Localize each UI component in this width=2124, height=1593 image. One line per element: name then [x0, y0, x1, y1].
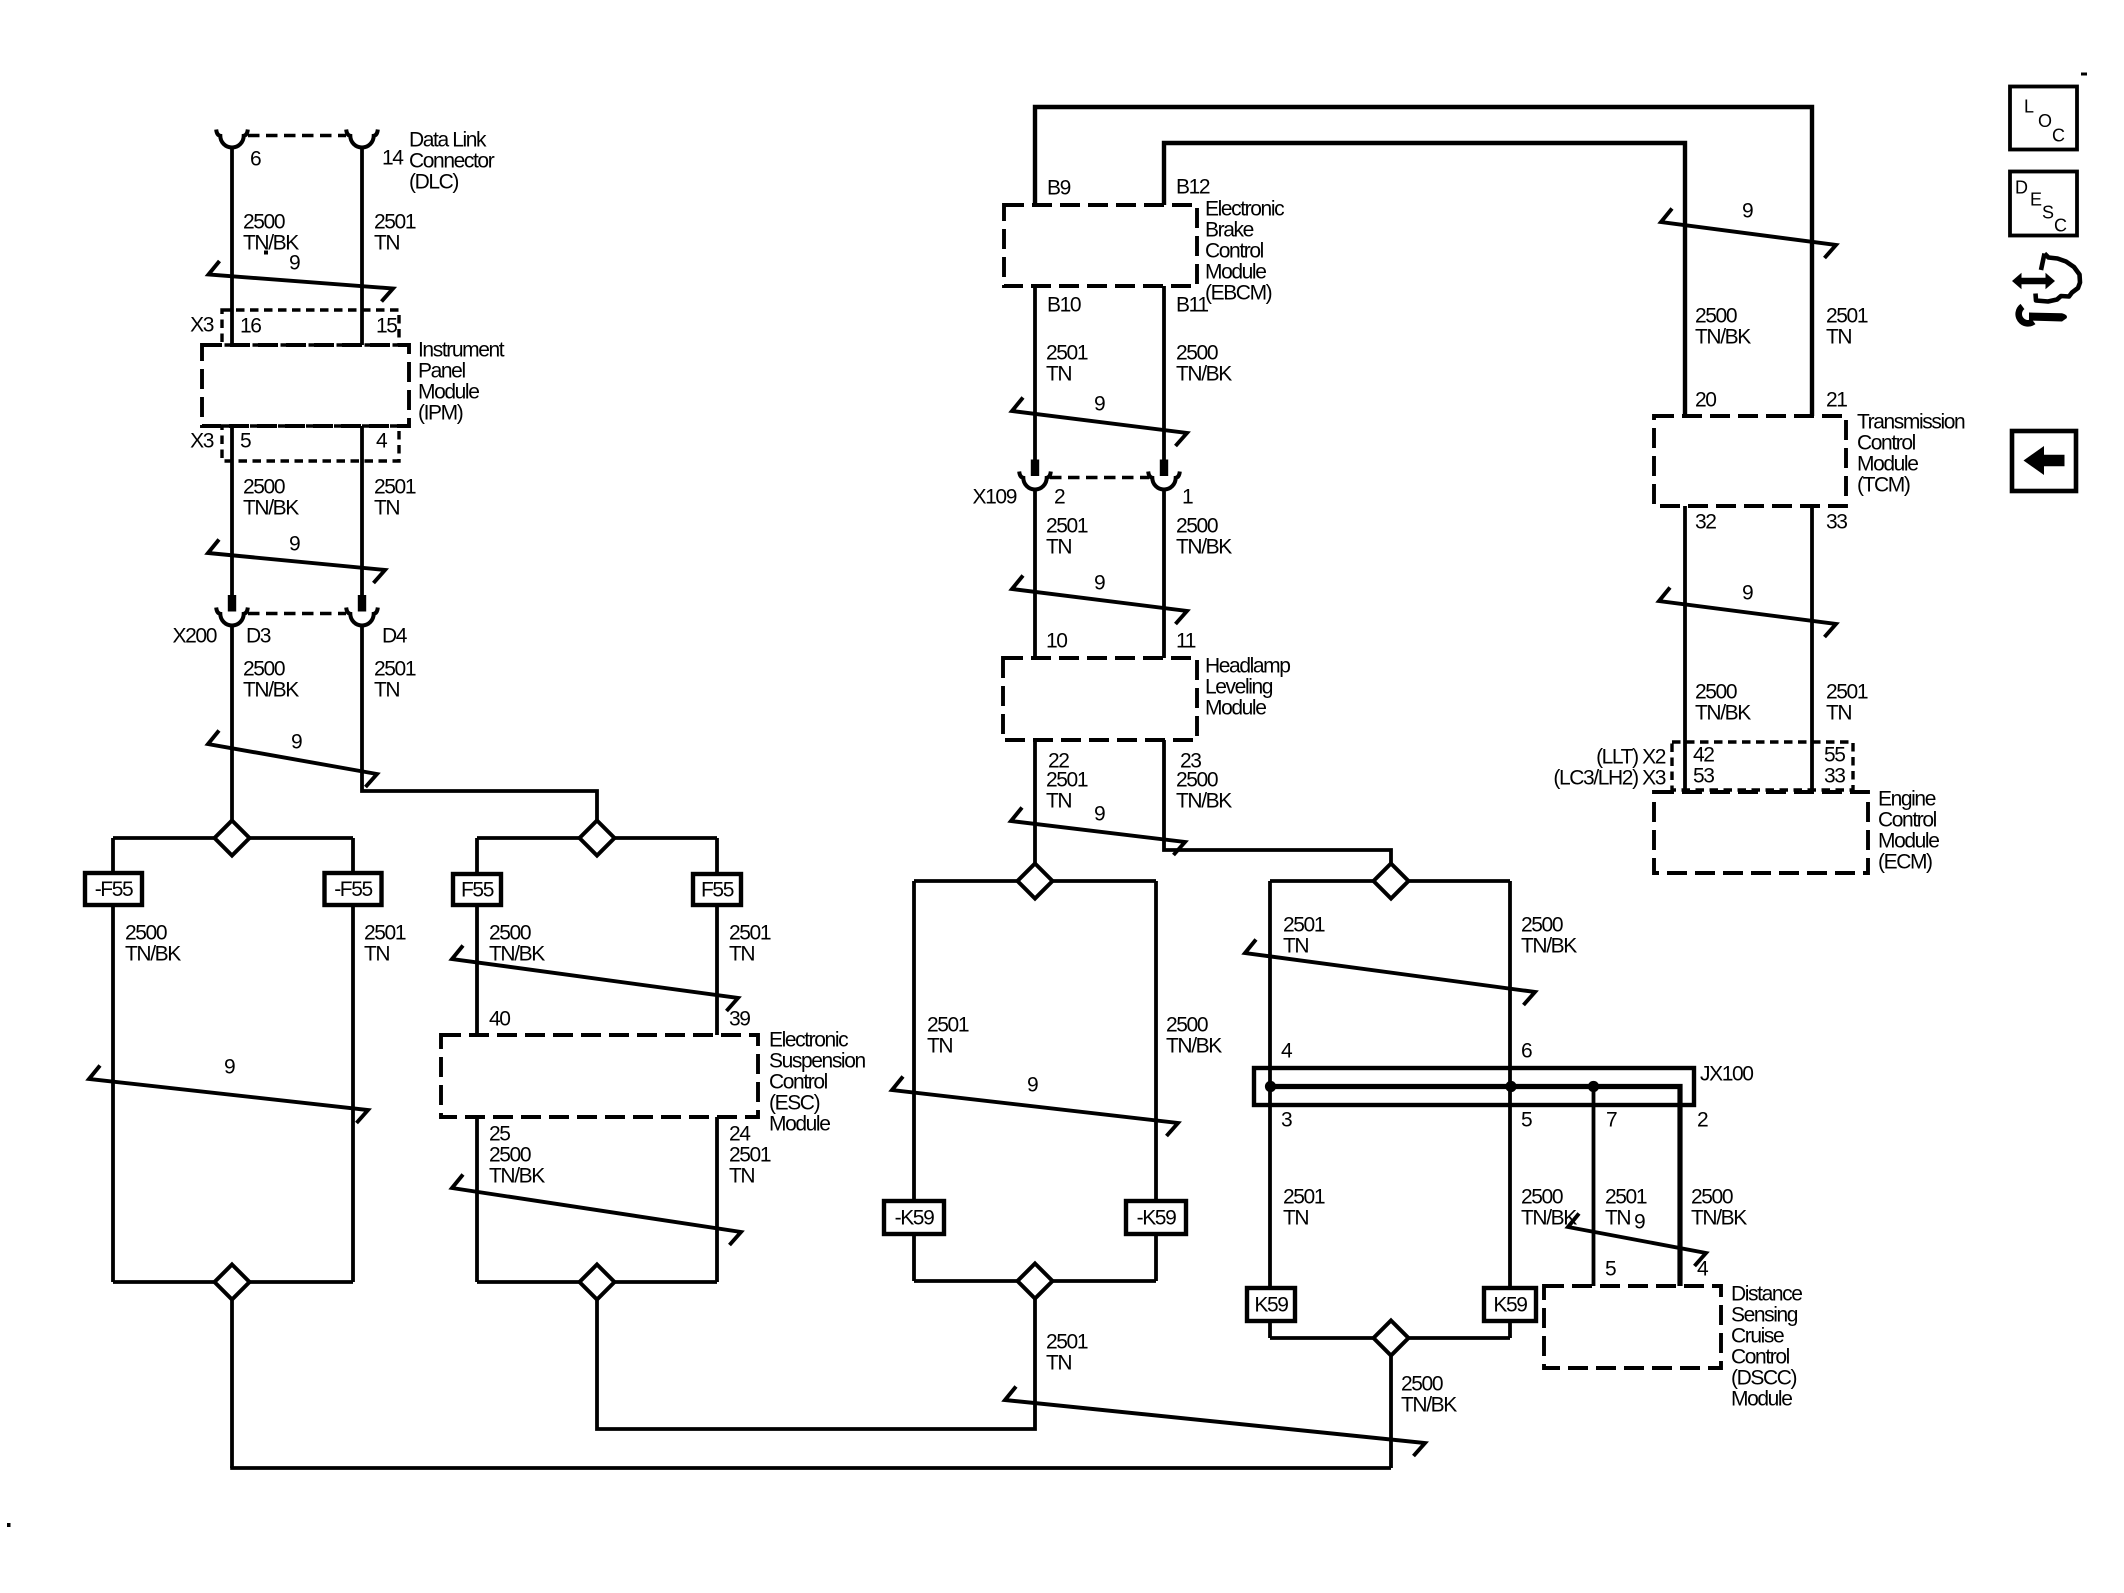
- wire label 2501 TN (center box): [927, 1014, 969, 1058]
- svg-text:39: 39: [729, 1008, 750, 1031]
- svg-text:-F55: -F55: [95, 878, 133, 901]
- svg-text:2501: 2501: [374, 476, 416, 499]
- svg-text:2500: 2500: [1166, 1014, 1208, 1037]
- svg-text:Module: Module: [1731, 1388, 1792, 1411]
- HLM pin 23 label: [1180, 750, 1201, 773]
- wire 2501 TN IPM to X200: [360, 426, 364, 596]
- wire label 2500 TN/BK (below ESC): [489, 1144, 545, 1188]
- splice (ESC bottom): [477, 1265, 717, 1300]
- TCM pin 21 label: [1826, 389, 1847, 412]
- svg-text:(ESC): (ESC): [769, 1092, 820, 1115]
- svg-text:TN/BK: TN/BK: [1176, 790, 1232, 813]
- HLM pin 11 label: [1176, 630, 1196, 653]
- icon wrench: [2019, 307, 2067, 324]
- svg-text:F55: F55: [461, 879, 494, 902]
- svg-text:Control: Control: [1731, 1346, 1790, 1369]
- twisted pair 9 label (EBCM): [1094, 393, 1105, 416]
- twisted pair 9 label (center box): [1027, 1074, 1038, 1097]
- svg-text:9: 9: [291, 731, 302, 754]
- svg-text:9: 9: [1634, 1211, 1645, 1234]
- svg-text:X200: X200: [173, 625, 217, 648]
- svg-text:TN/BK: TN/BK: [1691, 1207, 1747, 1230]
- svg-text:TN/BK: TN/BK: [489, 943, 545, 966]
- stray mark bottom left: [7, 1523, 11, 1527]
- svg-text:5: 5: [1605, 1258, 1616, 1281]
- svg-text:Transmission: Transmission: [1857, 411, 1965, 434]
- svg-text:TN/BK: TN/BK: [125, 943, 181, 966]
- icon LOC button: [2010, 87, 2077, 150]
- twisted pair 9 label: [289, 252, 300, 275]
- X200 pin D4 label: [382, 625, 408, 648]
- svg-text:2500: 2500: [1176, 515, 1218, 538]
- svg-text:7: 7: [1606, 1109, 1617, 1132]
- svg-text:4: 4: [1697, 1258, 1709, 1281]
- svg-text:F55: F55: [701, 879, 734, 902]
- HLM pin 10 label: [1046, 630, 1067, 653]
- svg-text:(LLT) X2: (LLT) X2: [1596, 746, 1666, 769]
- svg-text:2501: 2501: [1046, 515, 1088, 538]
- wire 2501 TN DLC to IPM: [360, 147, 364, 345]
- svg-text:2501: 2501: [374, 658, 416, 681]
- svg-text:Module: Module: [418, 381, 479, 404]
- svg-text:9: 9: [1094, 393, 1105, 416]
- wire label 2500 TN/BK (pin 2): [1691, 1186, 1747, 1230]
- svg-text:1: 1: [1182, 486, 1193, 509]
- svg-text:Brake: Brake: [1205, 219, 1254, 242]
- svg-text:(ECM): (ECM): [1878, 851, 1932, 874]
- svg-text:4: 4: [1281, 1040, 1293, 1063]
- svg-text:6: 6: [1521, 1040, 1532, 1063]
- svg-text:(DLC): (DLC): [409, 171, 458, 194]
- svg-text:S: S: [2042, 203, 2054, 223]
- relay K59 (right box right): [1484, 1288, 1536, 1321]
- splice (center bottom): [914, 1264, 1156, 1299]
- module IPM box: [202, 345, 409, 426]
- svg-text:B10: B10: [1047, 294, 1081, 317]
- wire label 2500 TN/BK (center box): [1166, 1014, 1222, 1058]
- svg-text:TN/BK: TN/BK: [1695, 702, 1751, 725]
- svg-text:6: 6: [250, 148, 261, 171]
- splice (left 2500 branch): [113, 821, 353, 856]
- relay -K59 (center left): [884, 1201, 944, 1234]
- svg-text:TN/BK: TN/BK: [1521, 935, 1577, 958]
- svg-text:2500: 2500: [1691, 1186, 1733, 1209]
- wire label 2500 TN/BK (below IPM): [243, 476, 299, 520]
- svg-text:2500: 2500: [1695, 681, 1737, 704]
- module label TCM: [1857, 411, 1965, 497]
- module label EBCM: [1205, 198, 1284, 305]
- relay K59 (right box left): [1247, 1288, 1295, 1321]
- svg-text:B12: B12: [1176, 176, 1210, 199]
- connector X3 top row pins 16 15: [222, 310, 399, 345]
- svg-text:14: 14: [382, 147, 404, 170]
- svg-text:2501: 2501: [1046, 769, 1088, 792]
- svg-text:Data Link: Data Link: [409, 129, 487, 152]
- twisted pair symbol 9 (X200-splice): [208, 731, 377, 788]
- svg-text:21: 21: [1826, 389, 1847, 412]
- svg-text:-F55: -F55: [334, 878, 372, 901]
- svg-text:TN: TN: [1826, 702, 1851, 725]
- svg-text:33: 33: [1824, 765, 1845, 788]
- junction block JX100: [1254, 1068, 1694, 1286]
- twisted pair symbol 9 (IPM-X200): [208, 540, 385, 584]
- svg-text:2500: 2500: [489, 922, 531, 945]
- EBCM pin B9 label: [1047, 177, 1071, 200]
- svg-text:25: 25: [489, 1123, 510, 1146]
- svg-text:TN: TN: [1283, 935, 1308, 958]
- wire 2501 TN TCM 33 to ECM: [1810, 506, 1814, 792]
- wire label 2500 TN/BK (HLM 23): [1176, 769, 1232, 813]
- ECM pin 42 label: [1693, 744, 1714, 767]
- twisted pair 9 label (HLM): [1094, 803, 1105, 826]
- svg-text:TN: TN: [729, 1165, 754, 1188]
- svg-text:2501: 2501: [1826, 305, 1868, 328]
- ESC pin 40 label: [489, 1008, 510, 1031]
- wire 2500 TN/BK right box right: [1508, 881, 1512, 1338]
- svg-text:C: C: [2054, 216, 2067, 236]
- wire label 2501 TN (TCM 21): [1826, 305, 1868, 349]
- wire right box bottom drop: [1389, 1356, 1393, 1469]
- svg-text:2501: 2501: [1283, 1186, 1325, 1209]
- wire 2500 TN/BK center right: [1154, 881, 1158, 1281]
- wire 2501 TN to ESC 39: [715, 838, 719, 1035]
- module ESC box: [441, 1035, 758, 1117]
- svg-text:B9: B9: [1047, 177, 1071, 200]
- svg-text:TN: TN: [1046, 363, 1071, 386]
- svg-text:K59: K59: [1493, 1294, 1527, 1317]
- svg-text:(IPM): (IPM): [418, 402, 463, 425]
- EBCM pin B12 label: [1176, 176, 1210, 199]
- svg-text:TN: TN: [927, 1035, 952, 1058]
- twisted pair symbol 9 (HLM): [1011, 808, 1185, 856]
- wire 2500 TN/BK left branch A: [111, 838, 115, 1282]
- svg-text:TN: TN: [1046, 536, 1071, 559]
- svg-text:TN: TN: [1046, 1352, 1071, 1375]
- wire label 2501 TN (below IPM): [374, 476, 416, 520]
- wire 2500 TN/BK to ESC 40: [475, 838, 479, 1035]
- svg-text:Module: Module: [1878, 830, 1939, 853]
- svg-text:9: 9: [224, 1056, 235, 1079]
- DLC pin 6 label: [250, 148, 261, 171]
- wire label 2501 TN (B10): [1046, 342, 1088, 386]
- ESC pin 25 label: [489, 1123, 510, 1146]
- svg-text:D3: D3: [246, 625, 271, 648]
- svg-text:Control: Control: [1857, 432, 1916, 455]
- svg-text:9: 9: [289, 252, 300, 275]
- svg-text:2501: 2501: [1046, 1331, 1088, 1354]
- wire 2501 TN ESC splice to center splice: [597, 1298, 1035, 1429]
- EBCM pin B10 label: [1047, 294, 1081, 317]
- module label ESC: [769, 1029, 865, 1136]
- module label ECM: [1878, 788, 1939, 874]
- icon swap curved arrow: [2036, 254, 2081, 302]
- TCM pin 32 label: [1695, 511, 1716, 534]
- ECM connector label (LC3/LH2) X3: [1553, 767, 1665, 790]
- svg-text:Electronic: Electronic: [769, 1029, 848, 1052]
- twisted pair symbol 9 (TCM-ECM): [1659, 588, 1836, 638]
- connector DLC (Data Link Connector) pins 6 and 14: [216, 130, 378, 148]
- twisted pair symbol 9 (X109-HLM): [1012, 576, 1187, 625]
- svg-text:TN: TN: [1283, 1207, 1308, 1230]
- JX100 pin 2 label: [1697, 1109, 1708, 1132]
- svg-text:Leveling: Leveling: [1205, 676, 1273, 699]
- svg-text:2500: 2500: [243, 211, 285, 234]
- svg-text:TN: TN: [729, 943, 754, 966]
- svg-text:24: 24: [729, 1123, 751, 1146]
- icon back arrow button: [2012, 431, 2076, 491]
- svg-text:42: 42: [1693, 744, 1714, 767]
- wire left box bottom drop: [230, 1300, 234, 1469]
- svg-text:TN/BK: TN/BK: [243, 679, 299, 702]
- twisted pair symbol (right box top): [1245, 940, 1535, 1006]
- wire 2500 TN/BK IPM to X200: [230, 426, 234, 596]
- svg-text:32: 32: [1695, 511, 1716, 534]
- wire label 2500 TN/BK (to ECM): [1695, 681, 1751, 725]
- HLM pin 22 label: [1048, 750, 1069, 773]
- connector label X109: [973, 486, 1017, 509]
- IPM pin 4 label: [376, 430, 388, 453]
- twisted pair symbol 9 (left box): [89, 1066, 368, 1124]
- svg-text:2500: 2500: [243, 476, 285, 499]
- wire label 2501 TN (ESC): [729, 922, 771, 966]
- svg-text:TN: TN: [374, 497, 399, 520]
- svg-text:Module: Module: [1857, 453, 1918, 476]
- wire label 2501 TN (right box): [1283, 914, 1325, 958]
- relay -K59 (center right): [1126, 1201, 1186, 1234]
- svg-text:2501: 2501: [729, 922, 771, 945]
- connector X3 bottom row pins 5 4: [222, 426, 399, 461]
- svg-text:(TCM): (TCM): [1857, 474, 1910, 497]
- svg-text:B11: B11: [1176, 294, 1208, 317]
- svg-text:2501: 2501: [1046, 342, 1088, 365]
- wire bottom bus run: [230, 1466, 1391, 1470]
- svg-text:Control: Control: [1878, 809, 1937, 832]
- svg-text:Panel: Panel: [418, 360, 465, 383]
- svg-text:2500: 2500: [489, 1144, 531, 1167]
- icon DESC button: [2010, 172, 2077, 236]
- svg-text:2501: 2501: [1283, 914, 1325, 937]
- ESC pin 39 label: [729, 1008, 750, 1031]
- wire label 2500 TN/BK (left box): [125, 922, 181, 966]
- wire label 2500 TN/BK (B11): [1176, 342, 1232, 386]
- twisted pair symbol 9 (center box): [892, 1077, 1178, 1137]
- svg-text:2501: 2501: [374, 211, 416, 234]
- svg-text:2501: 2501: [364, 922, 406, 945]
- twisted pair 9 label (TCM top): [1742, 200, 1753, 223]
- twisted pair symbol (DSCC pair): [1568, 1214, 1706, 1267]
- splice (ESC top): [477, 821, 717, 856]
- svg-text:Distance: Distance: [1731, 1283, 1802, 1306]
- svg-text:E: E: [2030, 190, 2042, 210]
- twisted pair symbol (ESC top): [452, 946, 738, 1012]
- twisted pair symbol 9 (DLC-IPM): [209, 261, 394, 302]
- svg-text:10: 10: [1046, 630, 1067, 653]
- connector label X200: [173, 625, 217, 648]
- DLC pin 14 label: [382, 147, 404, 170]
- wire label 2500 TN/BK: [243, 211, 299, 255]
- svg-text:TN/BK: TN/BK: [489, 1165, 545, 1188]
- wire 2501 TN HLM 22 to center splice: [1033, 740, 1037, 864]
- fuse -F55 (left B): [325, 873, 382, 905]
- stray mark top right: [2081, 73, 2087, 76]
- wire ESC 25 down: [475, 1117, 479, 1282]
- X109 pin 1 label: [1182, 486, 1193, 509]
- IPM pin 16 label: [240, 315, 261, 338]
- svg-text:X3: X3: [190, 430, 214, 453]
- svg-text:33: 33: [1826, 511, 1847, 534]
- svg-text:9: 9: [1742, 200, 1753, 223]
- svg-text:Electronic: Electronic: [1205, 198, 1284, 221]
- stray mark near twisted pair: [264, 251, 268, 255]
- svg-text:15: 15: [376, 315, 397, 338]
- IPM pin 15 label: [376, 315, 397, 338]
- svg-text:D4: D4: [382, 625, 408, 648]
- twisted pair 9 label (DSCC): [1634, 1211, 1645, 1234]
- svg-text:Instrument: Instrument: [418, 339, 505, 362]
- DSCC pin 5 label: [1605, 1258, 1616, 1281]
- svg-text:2501: 2501: [1826, 681, 1868, 704]
- svg-text:TN: TN: [1046, 790, 1071, 813]
- fuse F55 (ESC right): [693, 874, 741, 905]
- twisted pair symbol 9 (EBCM-X109): [1012, 398, 1187, 447]
- wire 2501 TN center left: [912, 881, 916, 1281]
- fuse F55 (ESC left): [453, 874, 501, 905]
- svg-text:Engine: Engine: [1878, 788, 1936, 811]
- wire 2501 TN B10 to X109: [1033, 286, 1037, 460]
- wire label 2501 TN (HLM 22): [1046, 769, 1088, 813]
- svg-text:Connector: Connector: [409, 150, 495, 173]
- svg-text:2500: 2500: [125, 922, 167, 945]
- wire 2501 TN X109 to HLM 10: [1033, 490, 1037, 658]
- ECM pin 53 label: [1693, 765, 1714, 788]
- wire label 2501 TN (to ECM): [1826, 681, 1868, 725]
- svg-text:2500: 2500: [1695, 305, 1737, 328]
- svg-text:JX100: JX100: [1700, 1063, 1753, 1086]
- module ECM box: [1654, 792, 1868, 873]
- svg-text:2500: 2500: [1521, 1186, 1563, 1209]
- twisted pair 9 label (X200-splice): [291, 731, 302, 754]
- svg-text:20: 20: [1695, 389, 1716, 412]
- X109 pin 2 label: [1054, 486, 1065, 509]
- svg-text:9: 9: [1027, 1074, 1038, 1097]
- svg-text:Sensing: Sensing: [1731, 1304, 1798, 1327]
- svg-text:TN: TN: [374, 232, 399, 255]
- svg-text:4: 4: [376, 430, 388, 453]
- svg-text:2500: 2500: [1521, 914, 1563, 937]
- svg-text:Suspension: Suspension: [769, 1050, 865, 1073]
- module EBCM box: [1004, 205, 1197, 286]
- svg-text:2500: 2500: [1176, 769, 1218, 792]
- module label DSCC: [1731, 1283, 1802, 1411]
- svg-text:Headlamp: Headlamp: [1205, 655, 1290, 678]
- module TCM box: [1654, 416, 1846, 506]
- wire 2500 TN/BK DLC to IPM: [230, 147, 234, 345]
- svg-text:2: 2: [1697, 1109, 1708, 1132]
- svg-text:5: 5: [240, 430, 251, 453]
- twisted pair 9 label (left box): [224, 1056, 235, 1079]
- JX100 pin 5 label: [1521, 1109, 1532, 1132]
- twisted pair 9 label (X109-HLM): [1094, 572, 1105, 595]
- module DSCC box: [1544, 1286, 1721, 1368]
- wire 2500 TN/BK EBCM B12 to TCM 20: [1164, 143, 1685, 416]
- svg-text:53: 53: [1693, 765, 1714, 788]
- splice (right box bottom): [1270, 1321, 1510, 1356]
- svg-text:Cruise: Cruise: [1731, 1325, 1784, 1348]
- splice (center top): [914, 864, 1156, 899]
- TCM pin 33 label: [1826, 511, 1847, 534]
- svg-text:X109: X109: [973, 486, 1017, 509]
- svg-text:(DSCC): (DSCC): [1731, 1367, 1796, 1390]
- svg-text:Module: Module: [1205, 261, 1266, 284]
- wire label 2501 TN: [374, 211, 416, 255]
- svg-text:Module: Module: [1205, 697, 1266, 720]
- JX100 pin 4 label: [1281, 1040, 1293, 1063]
- svg-text:TN/BK: TN/BK: [1176, 536, 1232, 559]
- svg-text:TN: TN: [1605, 1207, 1630, 1230]
- module label DLC: [409, 129, 495, 194]
- wire label 2501 TN (X109): [1046, 515, 1088, 559]
- svg-text:TN/BK: TN/BK: [1401, 1394, 1457, 1417]
- wire label 2500 TN/BK (below X200): [243, 658, 299, 702]
- wire label 2501 TN (below ESC): [729, 1144, 771, 1188]
- wire 2500 TN/BK X200 to splice: [230, 626, 234, 823]
- JX100 pin 3 label: [1281, 1109, 1292, 1132]
- connector label X3 (bottom): [190, 430, 214, 453]
- splice (left box bottom): [113, 1265, 353, 1300]
- wire label 2500 TN/BK (X109): [1176, 515, 1232, 559]
- EBCM pin B11 label: [1176, 294, 1208, 317]
- wire label 2500 TN/BK (ESC): [489, 922, 545, 966]
- svg-text:9: 9: [1094, 803, 1105, 826]
- wire label 2500 TN/BK (right box): [1521, 914, 1577, 958]
- svg-text:TN/BK: TN/BK: [1166, 1035, 1222, 1058]
- svg-text:9: 9: [1742, 582, 1753, 605]
- wire label 2500 TN/BK (TCM 20): [1695, 305, 1751, 349]
- svg-text:-K59: -K59: [1137, 1207, 1176, 1230]
- svg-text:TN: TN: [374, 679, 399, 702]
- svg-text:K59: K59: [1254, 1294, 1288, 1317]
- svg-text:16: 16: [240, 315, 261, 338]
- svg-text:(EBCM): (EBCM): [1205, 282, 1272, 305]
- svg-text:2500: 2500: [1401, 1373, 1443, 1396]
- wire 2500 TN/BK X109 to HLM 11: [1162, 490, 1166, 658]
- svg-text:L: L: [2024, 97, 2034, 117]
- svg-text:-K59: -K59: [895, 1207, 934, 1230]
- wire label 2500 TN/BK (bottom right): [1401, 1373, 1457, 1417]
- IPM pin 5 label: [240, 430, 251, 453]
- X200 pin D3 label: [246, 625, 271, 648]
- connector X109 pins 2 1: [1019, 460, 1180, 490]
- svg-text:TN/BK: TN/BK: [1176, 363, 1232, 386]
- connector ECM pin rows: [1672, 742, 1853, 790]
- wire 2500 TN/BK TCM 32 to ECM: [1683, 506, 1687, 792]
- wire 2501 TN right box left: [1268, 881, 1272, 1338]
- DSCC pin 4 label: [1697, 1258, 1709, 1281]
- svg-text:D: D: [2015, 178, 2028, 198]
- JX100 pin 7 label: [1606, 1109, 1617, 1132]
- svg-text:40: 40: [489, 1008, 510, 1031]
- svg-text:TN/BK: TN/BK: [1695, 326, 1751, 349]
- connector label X3 (top): [190, 314, 214, 337]
- svg-text:2501: 2501: [1605, 1186, 1647, 1209]
- wire 2501 TN JX100 7 to DSCC 5: [1592, 1087, 1596, 1287]
- wire label 2500 TN/BK (pin 5): [1521, 1186, 1577, 1230]
- twisted pair symbol (bottom center long): [1005, 1387, 1425, 1457]
- wire ESC 24 down: [715, 1117, 719, 1282]
- wire 2501 TN EBCM B9 to TCM 21: [1035, 107, 1812, 416]
- wire label 2501 TN (pin 7): [1605, 1186, 1647, 1230]
- svg-text:TN/BK: TN/BK: [243, 497, 299, 520]
